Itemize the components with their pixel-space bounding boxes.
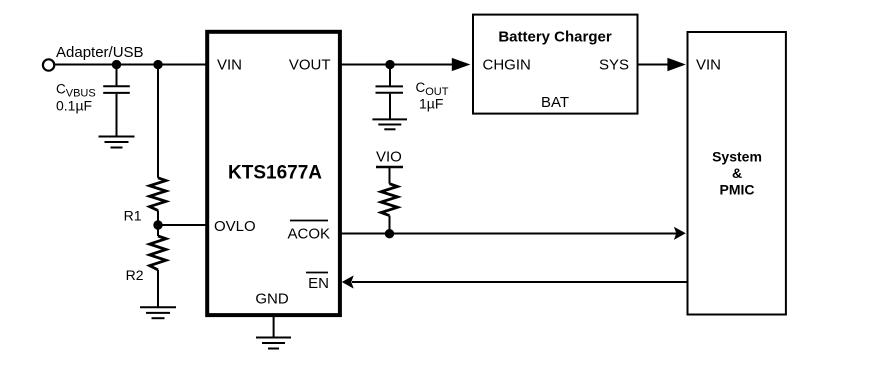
svg-text:CHGIN: CHGIN [483,57,531,74]
wire: ACOK to System [340,233,677,235]
svg-text:VOUT: VOUT [289,57,331,74]
input terminal (Adapter/USB port) [43,59,54,70]
svg-text:R1: R1 [124,208,142,224]
junction: R1 tap on VIN net [153,60,162,69]
wire: R1 to OVLO node [157,211,159,226]
svg-text:ACOK: ACOK [287,226,330,243]
wire: EN from System [352,281,688,283]
svg-text:&: & [732,165,742,181]
overline for ACOK [290,220,328,222]
svg-text:KTS1677A: KTS1677A [228,163,322,184]
overline for EN [306,272,328,274]
IC U1 KTS1677A [207,32,340,315]
svg-text:R2: R2 [126,267,144,283]
resistor R1 [150,178,166,211]
junction: ACOK node [385,229,394,238]
svg-text:SYS: SYS [599,57,629,74]
battery charger box [473,15,638,114]
ground (CVBUS) [99,137,135,148]
svg-text:VIN: VIN [217,57,242,74]
svg-text:EN: EN [308,275,329,292]
capacitor COUT [376,65,404,120]
svg-text:VIN: VIN [696,57,721,74]
ground (COUT) [372,119,407,129]
arrowhead into System VIN [667,58,685,71]
svg-text:GND: GND [255,291,289,308]
junction: COUT tap on VOUT net [385,60,394,69]
resistor R2 [150,225,166,307]
wire: GND pin to ground [273,315,275,337]
VIO rail bar [376,166,403,168]
wire: VIN net down to R1 [157,65,159,178]
ground (GND pin) [256,338,291,349]
resistor R3 (VIO pull-up) [381,167,397,234]
arrowhead into EN pin [342,275,354,288]
system &amp; PMIC box [688,32,786,315]
svg-text:OVLO: OVLO [214,218,256,235]
svg-text:System: System [712,149,762,165]
arrowhead into System (ACOK) [674,227,686,240]
wire: terminal to VIN pin [54,64,208,66]
junction: CVBUS tap on VIN net [112,60,121,69]
junction: OVLO node [153,220,162,229]
svg-text:Battery Charger: Battery Charger [498,29,612,46]
svg-text:VIO: VIO [376,149,402,166]
svg-text:PMIC: PMIC [720,182,755,198]
wire: OVLO node to OVLO pin [158,224,207,226]
wire: SYS to System VIN [638,64,672,66]
svg-text:0.1µF: 0.1µF [56,98,92,114]
svg-text:BAT: BAT [541,94,569,111]
ground (R2) [140,307,176,318]
arrowhead into CHGIN [452,58,471,71]
wire: VOUT to CHGIN [340,64,455,66]
svg-text:1µF: 1µF [419,96,443,112]
capacitor CVBUS [103,65,130,137]
svg-text:Adapter/USB: Adapter/USB [56,44,144,61]
